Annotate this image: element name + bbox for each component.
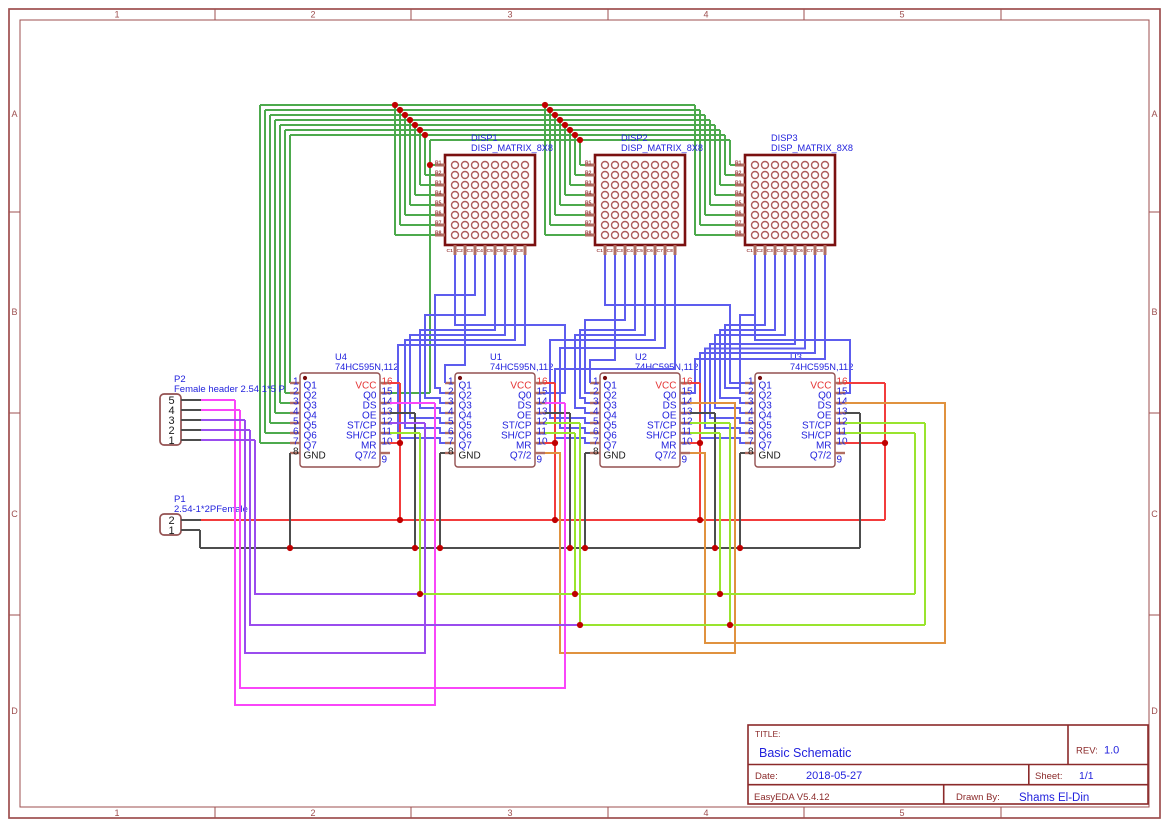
svg-text:R2: R2 bbox=[735, 170, 742, 176]
svg-text:C8: C8 bbox=[517, 248, 524, 254]
svg-text:9: 9 bbox=[682, 455, 688, 466]
svg-text:10: 10 bbox=[382, 436, 394, 447]
svg-text:R8: R8 bbox=[435, 230, 442, 236]
svg-text:Sheet:: Sheet: bbox=[1035, 771, 1062, 782]
svg-text:R3: R3 bbox=[735, 180, 742, 186]
svg-text:C3: C3 bbox=[467, 248, 474, 254]
svg-text:R3: R3 bbox=[585, 180, 592, 186]
svg-text:R6: R6 bbox=[585, 210, 592, 216]
svg-text:C1: C1 bbox=[597, 248, 604, 254]
svg-text:R5: R5 bbox=[435, 200, 442, 206]
svg-text:GND: GND bbox=[604, 451, 626, 462]
svg-text:C1: C1 bbox=[447, 248, 454, 254]
shift register IC U4 74HC595N bbox=[290, 352, 398, 467]
svg-text:TITLE:: TITLE: bbox=[755, 729, 781, 739]
svg-text:R1: R1 bbox=[735, 160, 742, 166]
svg-text:4: 4 bbox=[703, 10, 708, 20]
svg-text:C6: C6 bbox=[647, 248, 654, 254]
title block bbox=[748, 725, 1148, 804]
wire DISP3 C4 to U3 Q4 (blue) bbox=[715, 255, 785, 413]
junctions ST/CP net bbox=[577, 622, 733, 628]
wire row drops to DISP2 (green) bbox=[545, 105, 585, 235]
svg-text:C1: C1 bbox=[747, 248, 754, 254]
wire U2 Q7S to U3 DS (orange) bbox=[690, 403, 945, 643]
wire DISP2 C2 to U2 Q1 (blue) bbox=[590, 255, 615, 383]
svg-text:C5: C5 bbox=[787, 248, 794, 254]
wire DISP3 C5 to U3 Q5 (blue) bbox=[710, 255, 795, 423]
wire row drops to DISP1 (green) bbox=[395, 105, 435, 235]
wire U4 Q0 net (pin15 to DISP1 R1 and bus) bbox=[390, 140, 435, 393]
svg-text:74HC595N,112: 74HC595N,112 bbox=[490, 362, 553, 372]
svg-text:R6: R6 bbox=[735, 210, 742, 216]
svg-text:DISP2: DISP2 bbox=[621, 133, 648, 143]
svg-text:2: 2 bbox=[310, 808, 315, 818]
svg-text:B: B bbox=[1151, 307, 1157, 317]
svg-text:3: 3 bbox=[507, 10, 512, 20]
svg-text:A: A bbox=[11, 109, 17, 119]
wire U4 Q2 to row bus (green) bbox=[285, 130, 290, 393]
svg-text:3: 3 bbox=[507, 808, 512, 818]
svg-text:74HC595N,112: 74HC595N,112 bbox=[635, 362, 698, 372]
svg-text:GND: GND bbox=[304, 451, 326, 462]
svg-text:74HC595N,112: 74HC595N,112 bbox=[335, 362, 398, 372]
wire DISP3 C1 to U3 Q0 (blue) bbox=[740, 255, 850, 393]
svg-text:EasyEDA V5.4.12: EasyEDA V5.4.12 bbox=[754, 792, 830, 803]
junctions SH/CP net bbox=[417, 591, 723, 597]
svg-text:R1: R1 bbox=[585, 160, 592, 166]
svg-text:9: 9 bbox=[537, 455, 543, 466]
svg-text:Drawn By:: Drawn By: bbox=[956, 792, 1000, 803]
svg-text:R3: R3 bbox=[435, 180, 442, 186]
shift register IC U2 74HC595N bbox=[590, 352, 698, 467]
svg-text:B: B bbox=[11, 307, 17, 317]
svg-text:DISP_MATRIX_8X8: DISP_MATRIX_8X8 bbox=[471, 143, 553, 153]
wire DISP1 C6 to U1 Q5 (blue) bbox=[410, 255, 505, 423]
svg-text:Basic Schematic: Basic Schematic bbox=[759, 746, 851, 760]
wire VCC net (red) bbox=[201, 383, 885, 520]
svg-text:R7: R7 bbox=[435, 220, 442, 226]
svg-text:Shams El-Din: Shams El-Din bbox=[1019, 792, 1089, 804]
svg-text:Q7/2: Q7/2 bbox=[655, 451, 677, 462]
wire DISP1 C8 to U1 Q7 (blue) bbox=[398, 255, 525, 443]
junctions row bus at DISP2 bbox=[542, 102, 583, 143]
svg-text:R5: R5 bbox=[735, 200, 742, 206]
svg-text:1: 1 bbox=[168, 525, 174, 537]
junctions VCC net bbox=[397, 440, 888, 523]
wire DISP3 C6 to U3 Q6 (blue) bbox=[705, 255, 805, 433]
svg-text:D: D bbox=[11, 706, 18, 716]
svg-text:8: 8 bbox=[748, 446, 754, 457]
wire SH/CP net P2.1 (violet + lime) bbox=[201, 433, 915, 594]
svg-text:C4: C4 bbox=[627, 248, 634, 254]
svg-text:R8: R8 bbox=[585, 230, 592, 236]
svg-text:2.54-1*2PFemale: 2.54-1*2PFemale bbox=[174, 504, 248, 515]
svg-text:C3: C3 bbox=[617, 248, 624, 254]
svg-text:R2: R2 bbox=[585, 170, 592, 176]
wire DISP3 C3 to U3 Q3 (blue) bbox=[720, 255, 775, 403]
svg-text:4: 4 bbox=[703, 808, 708, 818]
svg-text:U4: U4 bbox=[335, 352, 347, 362]
svg-text:1: 1 bbox=[168, 435, 174, 447]
wire row drops to DISP3 (green) bbox=[695, 105, 735, 235]
wire DISP1 C3 to U1 Q2 (blue) bbox=[435, 255, 475, 393]
svg-text:1: 1 bbox=[114, 10, 119, 20]
svg-text:GND: GND bbox=[759, 451, 781, 462]
svg-text:DISP_MATRIX_8X8: DISP_MATRIX_8X8 bbox=[621, 143, 703, 153]
wire DISP1 C5 to U1 Q4 (blue) bbox=[420, 255, 495, 413]
svg-text:R4: R4 bbox=[435, 190, 442, 196]
svg-text:R1: R1 bbox=[435, 160, 442, 166]
svg-text:R4: R4 bbox=[585, 190, 592, 196]
svg-text:REV:: REV: bbox=[1076, 746, 1098, 757]
wire DISP2 C6 to U2 Q5 (blue) bbox=[550, 255, 655, 423]
junctions row bus at DISP1 bbox=[392, 102, 428, 138]
connector P2 female header 1x5 bbox=[160, 374, 285, 447]
svg-text:9: 9 bbox=[382, 455, 388, 466]
LED matrix DISP1 bbox=[435, 133, 553, 255]
wire U4 Q1 to row bus (green) bbox=[289, 135, 291, 383]
wire ST/CP net P2.2 (violet + lime) bbox=[201, 423, 925, 625]
svg-text:C3: C3 bbox=[767, 248, 774, 254]
svg-text:Female header 2.54 1*5 P: Female header 2.54 1*5 P bbox=[174, 384, 285, 395]
wire U4 Q6 to row bus (green) bbox=[265, 110, 290, 433]
svg-text:Q7/2: Q7/2 bbox=[510, 451, 532, 462]
svg-text:R6: R6 bbox=[435, 210, 442, 216]
svg-text:DISP3: DISP3 bbox=[771, 133, 798, 143]
svg-text:74HC595N,112: 74HC595N,112 bbox=[790, 362, 853, 372]
svg-text:C4: C4 bbox=[777, 248, 784, 254]
svg-text:8: 8 bbox=[293, 446, 299, 457]
shift register IC U1 74HC595N bbox=[445, 352, 553, 467]
wire DISP3 C8 to U2 Q0 (blue) bbox=[690, 255, 825, 393]
wire green row bus lines bbox=[260, 105, 730, 140]
wire DISP3 C2 to U3 Q2 (blue) bbox=[725, 255, 765, 393]
wire DISP2 C8 to U2 Q7 (blue) bbox=[555, 255, 675, 443]
svg-text:R4: R4 bbox=[735, 190, 742, 196]
svg-text:U1: U1 bbox=[490, 352, 502, 362]
svg-text:1.0: 1.0 bbox=[1104, 745, 1119, 757]
svg-text:C5: C5 bbox=[487, 248, 494, 254]
svg-text:10: 10 bbox=[537, 436, 549, 447]
svg-text:C2: C2 bbox=[607, 248, 614, 254]
svg-text:5: 5 bbox=[899, 10, 904, 20]
wire DISP1 C1 to U1 Q0 (blue) bbox=[455, 255, 565, 393]
svg-text:8: 8 bbox=[593, 446, 599, 457]
svg-text:C6: C6 bbox=[797, 248, 804, 254]
svg-text:DISP_MATRIX_8X8: DISP_MATRIX_8X8 bbox=[771, 143, 853, 153]
svg-text:C7: C7 bbox=[657, 248, 664, 254]
svg-text:C: C bbox=[1151, 509, 1158, 519]
wire DISP1 C7 to U1 Q6 (blue) bbox=[405, 255, 515, 433]
svg-text:1: 1 bbox=[114, 808, 119, 818]
LED matrix DISP2 bbox=[585, 133, 703, 255]
svg-text:GND: GND bbox=[459, 451, 481, 462]
wire DISP2 C3 to U2 Q2 (blue) bbox=[585, 255, 625, 393]
wire DISP1 C4 to U1 Q3 (blue) bbox=[425, 255, 485, 403]
wire P2.5 to U4 DS (magenta) bbox=[201, 400, 435, 705]
svg-text:1/1: 1/1 bbox=[1079, 770, 1094, 782]
svg-text:Q7/2: Q7/2 bbox=[355, 451, 377, 462]
svg-text:D: D bbox=[1151, 706, 1158, 716]
svg-text:U2: U2 bbox=[635, 352, 647, 362]
svg-text:2018-05-27: 2018-05-27 bbox=[806, 770, 862, 782]
svg-text:C5: C5 bbox=[637, 248, 644, 254]
wire DISP3 C7 to U3 Q7 (blue) bbox=[700, 255, 815, 443]
svg-text:A: A bbox=[1151, 109, 1157, 119]
connector P1 female header 1x2 bbox=[160, 494, 248, 537]
wire P2.4 to U1 DS (magenta) bbox=[201, 403, 565, 688]
svg-text:C2: C2 bbox=[757, 248, 764, 254]
svg-text:5: 5 bbox=[899, 808, 904, 818]
svg-text:9: 9 bbox=[837, 455, 843, 466]
svg-text:C: C bbox=[11, 509, 18, 519]
wire DISP2 C7 to U2 Q6 (blue) bbox=[560, 255, 665, 433]
wire U4 Q3 to row bus (green) bbox=[280, 125, 290, 403]
svg-text:Date:: Date: bbox=[755, 771, 778, 782]
svg-text:C6: C6 bbox=[497, 248, 504, 254]
svg-text:R5: R5 bbox=[585, 200, 592, 206]
wire U1 Q7S to U2 DS (orange) bbox=[545, 403, 735, 653]
svg-text:C2: C2 bbox=[457, 248, 464, 254]
svg-text:R7: R7 bbox=[735, 220, 742, 226]
svg-text:C8: C8 bbox=[667, 248, 674, 254]
wire U4 Q5 to row bus (green) bbox=[270, 115, 290, 423]
svg-text:C7: C7 bbox=[507, 248, 514, 254]
svg-text:C7: C7 bbox=[807, 248, 814, 254]
svg-text:C4: C4 bbox=[477, 248, 484, 254]
svg-text:DISP1: DISP1 bbox=[471, 133, 498, 143]
wire DISP2 C1 to U3 Q1 (blue) bbox=[605, 255, 745, 383]
svg-text:10: 10 bbox=[837, 436, 849, 447]
junction U4 Q0 / DISP1 R1 bbox=[427, 162, 433, 168]
wire P2.3 to U4 ST/CP (violet) bbox=[201, 420, 425, 653]
svg-text:10: 10 bbox=[682, 436, 694, 447]
wire DISP2 C5 to U2 Q4 (blue) bbox=[575, 255, 645, 413]
svg-text:8: 8 bbox=[448, 446, 454, 457]
wire GND net (gray) bbox=[200, 413, 860, 548]
LED matrix DISP3 bbox=[735, 133, 853, 255]
wire U4 Q7 to row bus (green) bbox=[260, 105, 290, 443]
wire U4 Q4 to row bus (green) bbox=[275, 120, 290, 413]
svg-text:C8: C8 bbox=[817, 248, 824, 254]
junctions GND net bbox=[287, 545, 743, 551]
svg-text:R8: R8 bbox=[735, 230, 742, 236]
svg-text:Q7/2: Q7/2 bbox=[810, 451, 832, 462]
svg-text:R2: R2 bbox=[435, 170, 442, 176]
wire DISP1 C2 to U1 Q1 (blue) bbox=[445, 255, 465, 383]
svg-text:R7: R7 bbox=[585, 220, 592, 226]
wire DISP2 C4 to U2 Q3 (blue) bbox=[580, 255, 635, 403]
shift register IC U3 74HC595N bbox=[745, 352, 853, 467]
svg-text:2: 2 bbox=[310, 10, 315, 20]
